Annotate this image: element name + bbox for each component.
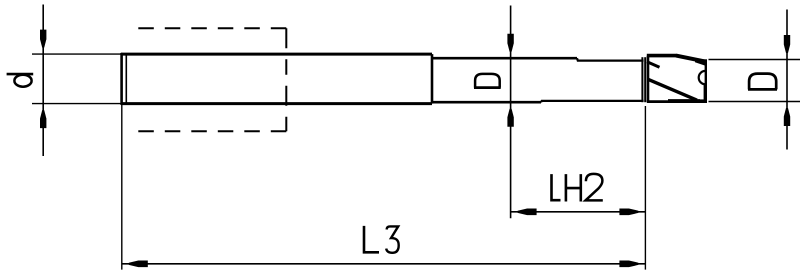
- clamping zone dashed rectangle bottom edge: [136, 130, 287, 132]
- dim d extension line bottom: [32, 103, 121, 105]
- label LH2 digit 2: [586, 174, 603, 201]
- dim L3 dimension line: [122, 263, 646, 265]
- mid section top line: [432, 57, 577, 60]
- head top right corner fill: [695, 58, 706, 66]
- dim L3 arrow left: [129, 261, 148, 268]
- head right edge: [705, 59, 707, 102]
- head inner right line: [704, 84, 706, 100]
- dim d arrow down: [40, 30, 46, 48]
- shank top line: [121, 53, 432, 56]
- dim LH2 dimension line: [511, 211, 646, 213]
- label LH2 letter L: [552, 174, 561, 200]
- neck bottom line with relief step: [541, 101, 644, 102]
- head left edge: [647, 56, 650, 102]
- dim D mid dimension line: [510, 6, 512, 219]
- label L3 letter L: [364, 226, 379, 252]
- shank step face: [431, 54, 434, 104]
- label D mid bar: [474, 86, 501, 89]
- head bottom land band: [668, 99, 700, 101]
- dim D right extension line bottom: [709, 101, 800, 103]
- head top land band: [647, 54, 677, 58]
- dim d arrow up: [40, 110, 46, 128]
- label D right bar: [748, 88, 777, 91]
- label d rotated bar: [7, 73, 34, 76]
- dim LH2 arrow left: [518, 209, 537, 216]
- head main flute diagonal: [648, 79, 697, 100]
- label d rotated bowl: [14, 75, 31, 87]
- head short flute diagonal: [647, 62, 660, 68]
- head front face line inner: [644, 57, 646, 102]
- dim D right dimension line: [786, 10, 788, 150]
- head bottom edge: [647, 100, 707, 103]
- dim D right arrow down: [784, 35, 790, 53]
- dim D mid arrow up: [507, 109, 513, 127]
- dim L3 arrow right: [619, 261, 638, 268]
- label LH2 letter H: [566, 174, 581, 201]
- dim D right arrow up: [784, 108, 790, 126]
- label L3 digit 3: [386, 226, 399, 252]
- clamping zone dashed rectangle right edge: [285, 28, 287, 131]
- dim d extension line top: [32, 53, 121, 55]
- head corner radius arc: [699, 71, 706, 84]
- shank bottom line: [121, 102, 432, 105]
- dim D mid arrow down: [507, 34, 513, 52]
- label D right dome: [749, 74, 776, 90]
- dim L3 left extension line: [121, 105, 123, 270]
- label D mid dome: [475, 74, 500, 88]
- shank left chamfer line: [125, 55, 127, 104]
- dim d dimension line: [42, 5, 44, 157]
- dim LH2 arrow right: [619, 209, 638, 216]
- dim LH2 right extension line: [644, 106, 646, 270]
- neck top line with relief step: [577, 58, 644, 60]
- dim D right extension line top: [709, 59, 800, 61]
- shank left end face: [120, 53, 123, 105]
- head front face line outer: [641, 57, 643, 102]
- head top flute diagonal: [676, 56, 706, 62]
- mid section bottom line: [432, 101, 541, 104]
- clamping zone dashed rectangle: [136, 27, 287, 29]
- head bottom right corner fill: [700, 99, 707, 103]
